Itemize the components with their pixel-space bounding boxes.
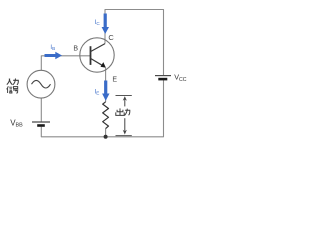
output annotation bottom line <box>116 135 132 137</box>
svg-text:C: C <box>108 33 114 42</box>
output annotation down arrow <box>123 118 127 134</box>
svg-text:IB: IB <box>50 45 55 51</box>
transistor Q1 circle <box>80 38 114 72</box>
wire: AC source top to base <box>41 56 90 71</box>
wire: AC source bottom to Vbb top <box>40 98 42 122</box>
transistor Q1 emitter diagonal with arrow <box>91 58 106 67</box>
AC source V1 circle <box>27 70 55 98</box>
svg-text:VCC: VCC <box>174 72 187 83</box>
resistor RE zigzag <box>103 102 109 129</box>
current arrow IE <box>102 81 109 101</box>
junction dot on bottom rail <box>104 135 108 139</box>
battery VCC short plate <box>158 78 167 81</box>
svg-text:B: B <box>73 46 78 53</box>
AC source sine wave <box>32 80 51 88</box>
wire: Vcc bottom to bottom rail to Vbb bottom <box>41 80 163 137</box>
transistor Q1 collector diagonal <box>91 44 106 52</box>
svg-text:IE: IE <box>95 89 100 95</box>
svg-text:IC: IC <box>95 20 101 26</box>
battery VBB short plate <box>37 124 45 127</box>
current arrow IB <box>45 52 63 59</box>
svg-text:VBB: VBB <box>10 118 23 128</box>
text 入力 (input) drawn as paths <box>7 79 19 85</box>
wire: resistor bottom to rail <box>105 129 107 137</box>
output annotation up arrow <box>123 96 127 106</box>
output annotation top line <box>116 95 132 97</box>
svg-text:E: E <box>112 76 117 83</box>
transistor Q1 base bar <box>90 46 92 65</box>
battery VCC long plate <box>155 75 171 77</box>
current arrow IC <box>102 14 109 35</box>
wire: emitter to resistor <box>105 68 107 102</box>
wire: collector to top rail to Vcc <box>105 10 164 76</box>
text 信号 (signal) drawn as paths <box>7 86 19 93</box>
battery VBB long plate <box>32 121 50 123</box>
text 出力 (output) drawn as paths <box>116 108 130 115</box>
